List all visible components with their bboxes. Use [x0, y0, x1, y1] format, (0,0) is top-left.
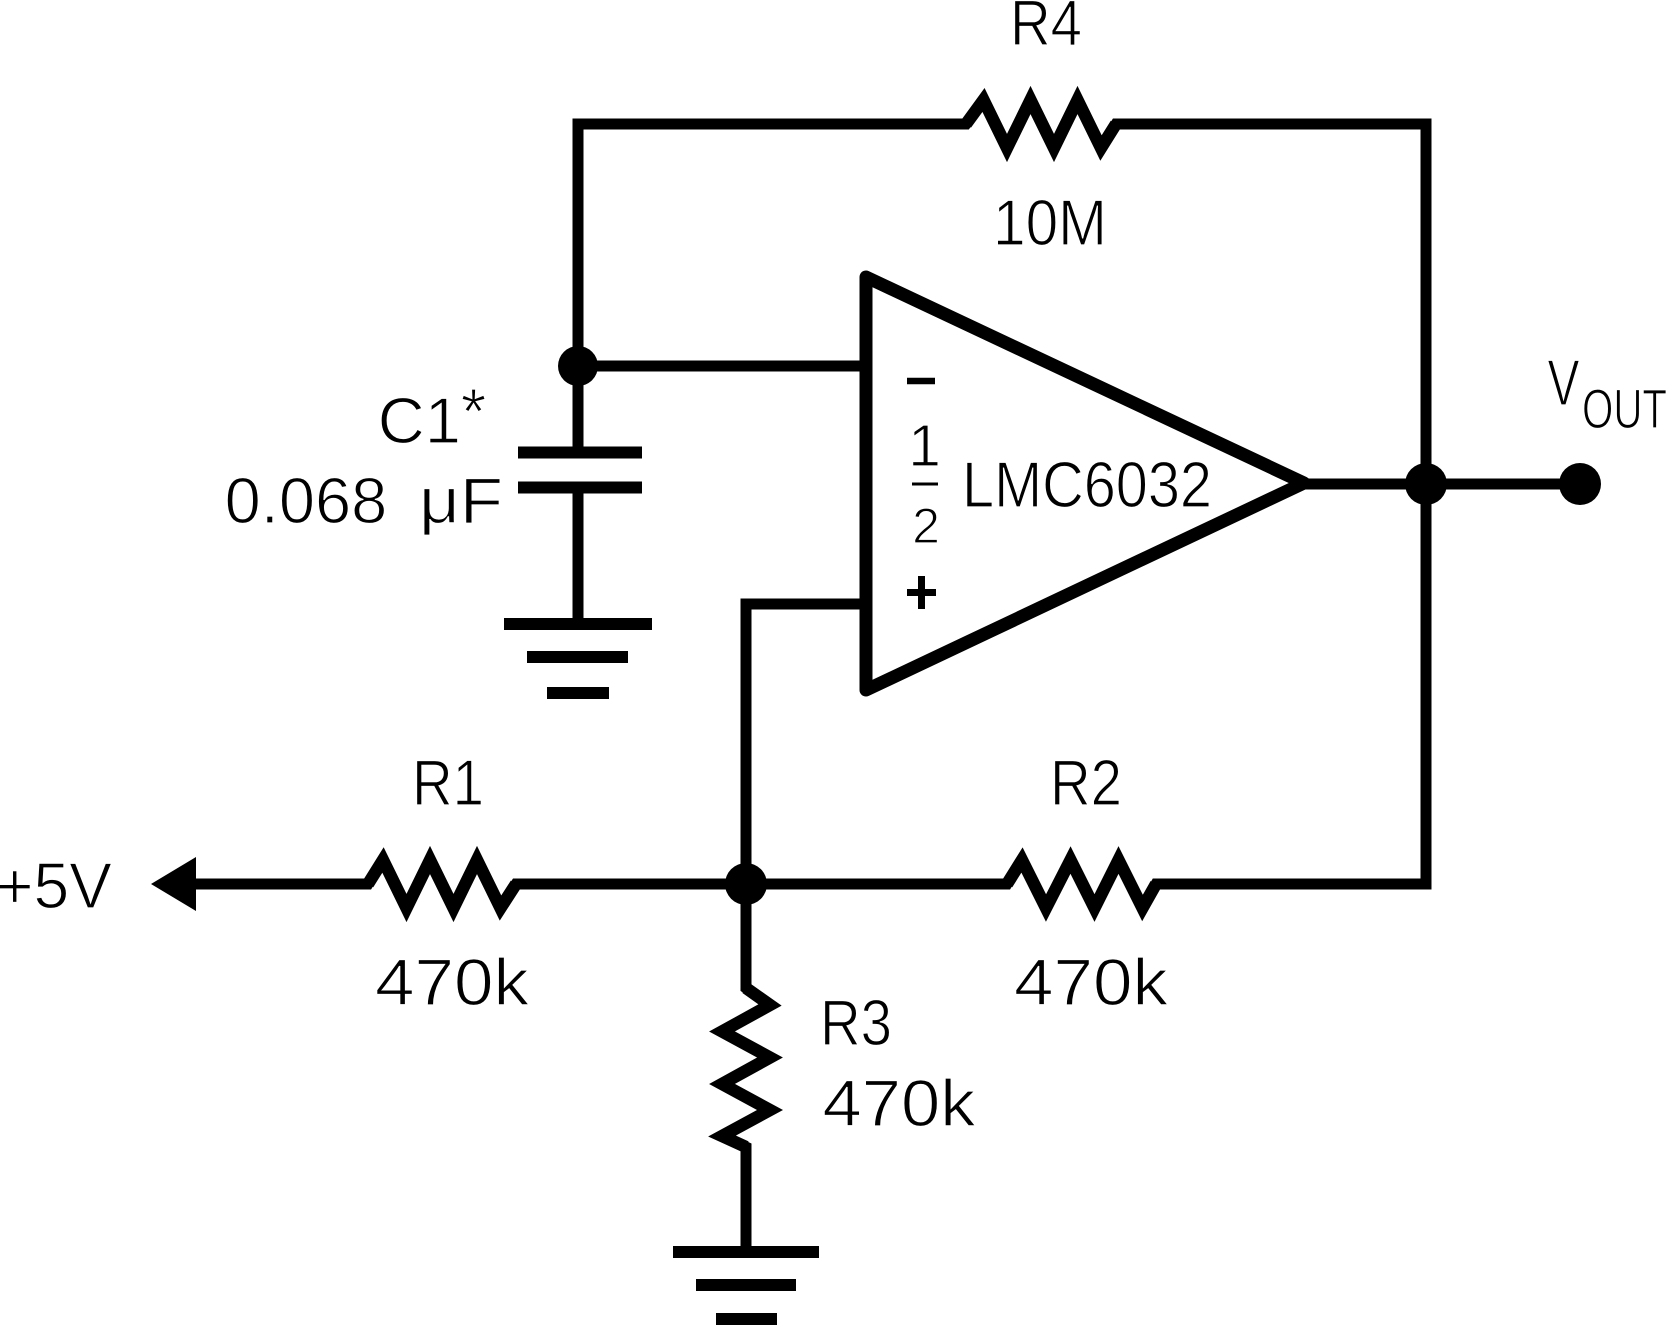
svg-text:R1: R1: [412, 746, 484, 819]
svg-text:+5V: +5V: [0, 849, 113, 922]
svg-text:R4: R4: [1010, 0, 1082, 59]
svg-text:470k: 470k: [375, 945, 530, 1019]
svg-text:10M: 10M: [993, 186, 1107, 259]
svg-text:470k: 470k: [823, 1066, 977, 1140]
svg-text:2: 2: [912, 498, 940, 554]
svg-text:R2: R2: [1050, 746, 1122, 819]
svg-text:OUT: OUT: [1582, 377, 1667, 440]
svg-text:470k: 470k: [1014, 945, 1169, 1019]
svg-text:0.068: 0.068: [225, 464, 388, 537]
svg-text:R3: R3: [820, 986, 892, 1059]
svg-text:1: 1: [908, 413, 941, 479]
svg-text:μF: μF: [419, 464, 503, 537]
svg-text:V: V: [1548, 346, 1580, 419]
svg-text:LMC6032: LMC6032: [962, 448, 1212, 521]
svg-text:C1*: C1*: [378, 375, 486, 457]
